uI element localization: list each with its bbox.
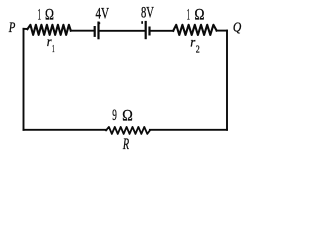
battery B1 4V tall plate [97, 23, 99, 39]
battery B2 8V tall plate [145, 22, 147, 38]
resistor r1 zigzag [27, 25, 70, 35]
resistor R zigzag [106, 127, 150, 134]
svg-text:Q: Q [233, 20, 241, 35]
wire bottom edge right [150, 129, 227, 131]
svg-text:R: R [122, 136, 129, 153]
svg-text:4V: 4V [96, 6, 110, 23]
svg-text:9: 9 [112, 107, 117, 124]
wire top-left corner stub [24, 28, 28, 30]
wire r1 to battery B1 [71, 30, 94, 32]
battery B1 4V short plate [94, 27, 96, 36]
wire r2 to top-right corner [217, 30, 227, 32]
wire right edge [226, 31, 228, 130]
svg-text:Ω: Ω [45, 7, 54, 24]
wire left edge [23, 29, 25, 130]
svg-text:2: 2 [196, 43, 200, 55]
wire B1 to battery B2 [100, 30, 145, 32]
svg-text:1: 1 [38, 7, 41, 24]
scan dot under 4V [99, 22, 101, 24]
svg-text:1: 1 [187, 6, 190, 23]
scan dot under 8V [141, 21, 143, 24]
wire bottom edge left [24, 129, 107, 131]
battery B2 8V short plate [148, 28, 150, 35]
svg-text:P: P [8, 20, 15, 36]
svg-text:8V: 8V [141, 5, 154, 22]
wire B2 to resistor r2 [150, 30, 173, 32]
svg-text:1: 1 [52, 43, 55, 55]
resistor r2 zigzag [173, 25, 216, 35]
svg-text:Ω: Ω [194, 7, 204, 24]
svg-text:Ω: Ω [122, 108, 133, 125]
